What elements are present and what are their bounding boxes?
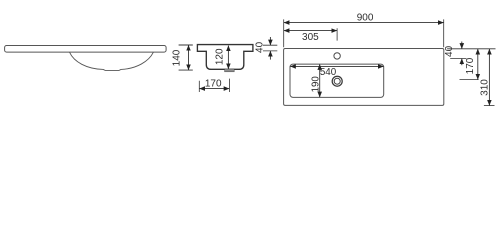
dimension 170 (top view) extension line (drain axis) [460,79,479,81]
top view basin cutout [290,64,384,97]
dimension 40 (section) arrows outside [269,37,271,45]
dimension 170 (section) extension lines [199,79,229,92]
dimension 310 line with arrows [488,49,490,105]
drain outer circle [332,76,342,86]
dimension 900 extension lines [284,19,444,47]
dimension 40 (top view) arrows outside [461,42,463,49]
dimension 140 extension ticks [179,45,193,70]
svg-text:540: 540 [320,67,337,78]
svg-text:900: 900 [357,12,374,23]
dimension 170 (section) line with arrows [200,88,230,90]
dimension 40 (section) extension lines [263,45,277,51]
top view counter outline [284,49,444,106]
svg-text:40: 40 [254,41,265,53]
dimension 310 bottom extension line [484,105,495,107]
section outline (cross-section of basin) [197,45,253,70]
svg-text:170: 170 [465,57,476,74]
dimension 540 line with arrows [290,65,383,67]
front view bowl curve [70,52,154,70]
front view slab (basin top seen from front) [5,46,167,53]
svg-text:190: 190 [310,76,321,93]
right side top extension line [447,48,495,50]
section drain stub [225,69,235,72]
dimension 190 line with arrows [319,64,321,97]
dimension 305 line with arrows [284,30,337,32]
dimension 40 (top view) bottom extension line [450,58,466,60]
svg-text:40: 40 [444,45,455,57]
dimension 170 (top view) line with arrows [477,49,479,79]
drain inner circle [334,78,340,84]
svg-text:310: 310 [479,79,490,96]
dimension 305 extension line (faucet axis) [336,28,338,40]
svg-text:120: 120 [215,48,226,65]
dimension 900 line with arrows [284,22,444,24]
faucet hole [334,53,340,59]
svg-text:305: 305 [302,32,319,43]
dimension 140 line with arrows [188,45,190,70]
svg-text:140: 140 [171,49,182,66]
dimension 120 line with arrows [227,46,229,69]
svg-text:170: 170 [205,79,222,90]
